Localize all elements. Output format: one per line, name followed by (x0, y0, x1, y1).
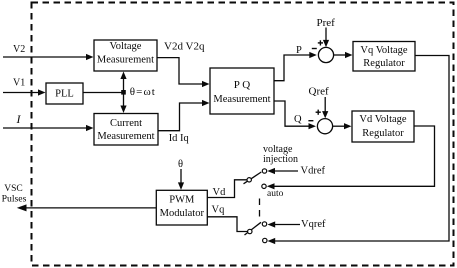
wire Vd regulator output to auto contact (273, 126, 435, 186)
arrowhead Q into sum (309, 123, 317, 129)
svg-text:Q: Q (294, 114, 302, 125)
svg-text:P Q: P Q (234, 79, 250, 91)
wire Vq regulator output to lower switch contact (274, 56, 450, 242)
wire PLL output to theta bus (83, 92, 124, 94)
svg-text:Vdref: Vdref (301, 166, 326, 177)
svg-text:Regulator: Regulator (362, 128, 404, 139)
summing junction Q (317, 119, 332, 134)
arrowhead V2 into voltage measurement (86, 54, 94, 60)
svg-text:Modulator: Modulator (160, 208, 205, 219)
wire switch mechanical link dashed (259, 199, 261, 218)
wire top switch arm (244, 172, 262, 184)
wire P to sum (274, 55, 312, 81)
contact top switch pole (247, 178, 251, 182)
arrowhead P into sum (309, 52, 317, 58)
svg-text:Vd: Vd (213, 187, 227, 198)
arrowhead Vqref into contact (268, 221, 276, 227)
svg-text:PWM: PWM (169, 194, 195, 205)
svg-text:V2d V2q: V2d V2q (164, 41, 205, 53)
wire I input (3, 127, 87, 129)
contact Vdref throw (262, 169, 266, 173)
svg-text:Measurement: Measurement (97, 55, 154, 66)
svg-text:Qref: Qref (309, 86, 329, 98)
svg-text:V2: V2 (13, 44, 25, 55)
arrowhead auto into contact (267, 183, 275, 189)
sign plus at Q sum (316, 111, 321, 113)
svg-text:PLL: PLL (55, 89, 74, 100)
wire Pref arrow (325, 28, 327, 42)
block PWM Modulator (156, 190, 207, 225)
wire Q to sum (274, 101, 312, 126)
svg-text:θ=ωt: θ=ωt (130, 86, 156, 98)
svg-text:Pref: Pref (317, 17, 336, 29)
wire theta into PWM (180, 169, 182, 184)
wire V1 input (3, 92, 40, 94)
svg-text:Vq: Vq (212, 205, 226, 216)
arrowhead Vdref into contact (267, 168, 275, 174)
contact Vqref throw (262, 222, 266, 226)
arrowhead theta bus down (120, 106, 126, 114)
svg-text:injection: injection (263, 154, 298, 165)
svg-text:θ: θ (178, 159, 183, 170)
arrowhead into Vq regulator (345, 52, 353, 58)
svg-text:V1: V1 (13, 78, 25, 89)
sign minus at Q sum (308, 120, 313, 122)
wire current measurement to PQ (158, 103, 203, 131)
wire P sum to Vq regulator (334, 54, 347, 56)
contact lower throw (263, 238, 267, 242)
arrowhead Idq into PQ (202, 100, 210, 106)
svg-text:VSC: VSC (4, 184, 22, 194)
arrowheads (17, 40, 353, 244)
wire bottom switch pole to PWM Vq input (207, 217, 247, 232)
svg-text:Regulator: Regulator (363, 58, 405, 69)
svg-text:Vqref: Vqref (301, 219, 326, 230)
svg-text:P: P (296, 45, 302, 56)
arrowhead V2dq into PQ (202, 81, 210, 87)
svg-text:Measurement: Measurement (213, 94, 270, 105)
block Current Measurement (94, 114, 158, 146)
wire theta double arrow vertical (123, 77, 125, 109)
arrowhead into Vd regulator (344, 123, 352, 129)
block Voltage Measurement (94, 40, 157, 71)
arrowhead Qref into sum (322, 111, 328, 118)
svg-text:Vd Voltage: Vd Voltage (359, 114, 406, 125)
wire Vdref (274, 170, 299, 172)
sign plus at P sum (318, 42, 323, 44)
contact auto throw (262, 184, 266, 188)
svg-text:Current: Current (110, 118, 142, 129)
wire bottom switch arm (245, 222, 262, 235)
arrowhead theta into PWM (178, 182, 184, 190)
contact bottom switch pole (248, 229, 252, 233)
wire voltage measurement to PQ (157, 58, 203, 84)
wire PWM output VSC pulses (25, 207, 156, 209)
svg-text:Measurement: Measurement (97, 131, 154, 142)
arrowhead Vq reg into lower contact (268, 238, 276, 244)
svg-text:Pulses: Pulses (2, 194, 27, 205)
block PQ Measurement (210, 68, 274, 114)
sum signs (308, 40, 323, 120)
block Vd Voltage Regulator (352, 111, 414, 142)
wire Vqref (274, 224, 300, 226)
arrowhead I into current measurement (86, 125, 94, 131)
block Vq Voltage Regulator (353, 42, 415, 72)
wire Qref arrow (324, 97, 326, 113)
sign minus at P sum (312, 48, 317, 50)
wire V2 input (3, 56, 87, 58)
svg-text:Id Iq: Id Iq (169, 133, 190, 144)
svg-text:Voltage: Voltage (110, 41, 142, 52)
junction node PLL/theta (121, 90, 126, 95)
summing junction P (318, 47, 333, 62)
svg-text:Vq Voltage: Vq Voltage (360, 45, 407, 56)
wire top switch pole to PWM Vd input (207, 180, 247, 198)
svg-text:auto: auto (267, 189, 284, 199)
arrowhead Pref into sum (323, 40, 329, 47)
arrowhead VSC pulses out (17, 204, 27, 211)
arrowhead V1 into PLL (38, 89, 46, 95)
arrowhead theta bus up (120, 72, 126, 80)
block PLL (46, 83, 83, 104)
switch contacts (247, 169, 267, 243)
wire Q sum to Vd regulator (333, 125, 346, 127)
